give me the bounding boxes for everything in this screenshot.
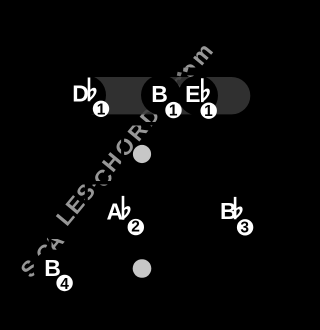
fret 1 <box>48 122 234 126</box>
watermark dimmed over barre <box>16 36 220 282</box>
fretboard grid (black, occludes watermark) <box>48 68 234 297</box>
scale note dot (gray) row 4 <box>133 259 152 278</box>
finger badge 3 on Bb <box>237 219 253 235</box>
watermark SCALES-CHORDS.com <box>16 36 220 282</box>
svg-text:3: 3 <box>240 220 249 237</box>
string 2 <box>85 68 88 297</box>
note circle B low (hidden, string 5) <box>34 250 73 289</box>
nut <box>48 68 234 76</box>
svg-text:2: 2 <box>131 218 140 235</box>
flat of Bb <box>234 197 243 219</box>
note circle Eb (string 3) <box>178 76 218 116</box>
svg-text:A: A <box>107 199 124 225</box>
fret 2 <box>48 181 234 185</box>
string 3 <box>121 68 124 297</box>
flat of Eb <box>201 78 210 102</box>
barre bar (fret 1 barre) <box>86 77 250 114</box>
svg-text:B: B <box>44 255 61 281</box>
svg-text:1: 1 <box>97 102 106 119</box>
note circle Bb (hidden, string 1) <box>212 193 251 232</box>
note circle Ab (hidden, string 2) <box>101 193 140 232</box>
finger badge 4 on B low <box>56 275 72 291</box>
svg-text:D: D <box>72 80 89 106</box>
svg-text:1: 1 <box>204 103 213 120</box>
fret 4 <box>48 293 234 297</box>
string 6 <box>230 68 233 297</box>
svg-text:4: 4 <box>60 276 69 293</box>
svg-text:1: 1 <box>169 102 178 119</box>
finger badge 1 on B <box>165 102 181 118</box>
finger badge 2 on Ab <box>128 219 144 235</box>
string 4 <box>157 68 160 297</box>
flat of Db <box>88 78 97 102</box>
scale note dot (gray) row 2 <box>133 145 151 163</box>
fret 3 <box>48 236 234 240</box>
string 5 <box>194 68 197 297</box>
note circle Db (string 6) <box>66 75 106 115</box>
svg-text:B: B <box>151 81 168 107</box>
note circle B (string 4) <box>141 75 181 115</box>
svg-text:E: E <box>185 81 200 107</box>
watermark remnant bits over nut near Eb <box>183 68 189 73</box>
finger badge 1 on Db <box>93 101 109 117</box>
finger badge 1 on Eb <box>201 103 217 119</box>
string 1 <box>49 68 52 297</box>
flat of Ab <box>122 196 131 220</box>
